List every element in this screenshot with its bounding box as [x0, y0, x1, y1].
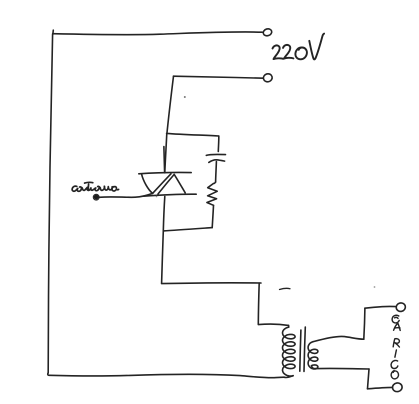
- wire vertical x259 down: [257, 283, 260, 324]
- terminal T1 (220V upper): [262, 28, 272, 37]
- wire horizontal to x259: [162, 282, 261, 285]
- transformer TR1 secondary winding: [308, 342, 318, 369]
- triac Q1 MT1 bar: [144, 194, 197, 196]
- wire top phase line: [53, 32, 263, 35]
- wire from T2 to junction A: [174, 76, 264, 78]
- speck: [184, 96, 186, 98]
- wire node B down to corner: [162, 231, 164, 283]
- stray mark: [280, 288, 291, 289]
- transformer TR1 primary winding: [283, 325, 296, 376]
- wire corner to primary top: [258, 324, 288, 325]
- gate wire G: [99, 193, 153, 197]
- wire resistor bottom lead: [212, 205, 213, 227]
- terminal T3 (load upper): [395, 302, 406, 312]
- triac Q1 left triangle: [142, 174, 171, 194]
- wire vertical up to T3 level: [364, 308, 365, 339]
- speck: [156, 196, 158, 198]
- wire junction A to snubber top: [167, 133, 219, 136]
- capacitor C1 bottom plate: [209, 160, 225, 163]
- transformer core line 2: [304, 327, 305, 371]
- wire to T4: [368, 387, 393, 388]
- triac Q1 bottom lead to node B: [163, 196, 165, 231]
- capacitor C1 top plate: [206, 153, 225, 156]
- label CARICO: [391, 315, 400, 379]
- wire vertical T2-corner down to junction A: [167, 76, 174, 133]
- node top-left corner overshoot: [52, 30, 55, 34]
- wire to T3: [365, 306, 396, 308]
- resistor R1 zigzag: [207, 182, 217, 205]
- triac Q1 MT2 bar: [139, 173, 191, 174]
- terminal T2 (220V lower): [263, 73, 274, 83]
- secondary bottom exit: [312, 366, 317, 369]
- wire secondary bottom to drop: [316, 367, 369, 370]
- terminal T4 (load lower): [392, 382, 403, 392]
- gate terminal dot: [94, 195, 99, 200]
- triac Q1 top lead: [165, 133, 167, 172]
- wire capacitor to resistor: [215, 162, 218, 183]
- wire left vertical of loop: [48, 34, 52, 373]
- wire snubber top lead: [217, 136, 220, 152]
- wire snubber bottom to node B: [163, 228, 212, 231]
- triac Q1 top lead double stroke: [163, 147, 166, 173]
- wire vertical down: [368, 369, 370, 389]
- wire secondary top to rise: [313, 336, 364, 341]
- transformer core line 1: [300, 330, 301, 371]
- wire bottom of loop: [48, 373, 284, 378]
- label controllo: [72, 182, 118, 191]
- label 220V: [273, 34, 325, 60]
- speck: [374, 286, 376, 288]
- triac Q1 right triangle: [158, 174, 185, 194]
- primary bottom exit: [284, 376, 293, 378]
